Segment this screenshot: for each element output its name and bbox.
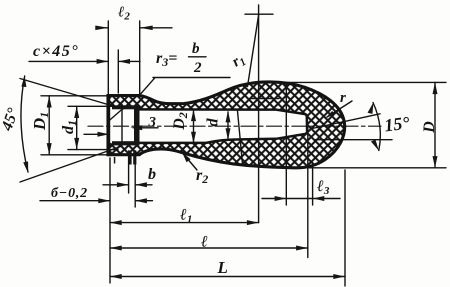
svg-text:c×45°: c×45°	[33, 43, 79, 60]
D1 dimension	[41, 95, 107, 97]
extension verticals	[109, 158, 111, 283]
chamfer top on bore	[108, 102, 132, 123]
thin vertical line crossing cavity at d-section	[238, 111, 243, 164]
svg-text:2: 2	[193, 60, 202, 76]
mystery short ext line near crown	[250, 98, 279, 100]
outer profile outline	[108, 82, 345, 168]
r2 leader	[183, 154, 197, 171]
metal insert (blackened thin section)	[112, 105, 140, 164]
svg-text:б−0,2: б−0,2	[51, 186, 88, 201]
handle body section (hatched)	[108, 82, 345, 168]
l3 dimension	[262, 198, 340, 200]
svg-text:15°: 15°	[383, 112, 411, 135]
small arrow at left face	[84, 133, 106, 135]
45 deg rays	[20, 146, 122, 182]
chamfer bottom on bore	[109, 143, 114, 147]
centerline	[88, 125, 381, 127]
svg-text:3: 3	[148, 115, 157, 131]
extra stub line	[114, 157, 116, 164]
r3 = b/2 fraction bar	[189, 56, 207, 58]
svg-text:ℓ: ℓ	[200, 234, 208, 251]
svg-text:r: r	[340, 90, 346, 106]
15 degree rays and arc	[312, 114, 380, 129]
boss left face	[107, 96, 110, 155]
svg-text:b: b	[192, 41, 200, 57]
svg-text:b: b	[148, 166, 156, 183]
d1 dimension	[68, 105, 112, 107]
L dimension	[110, 276, 345, 278]
b dimension	[103, 184, 152, 186]
svg-text:d: d	[205, 118, 222, 127]
bottom rib stubs	[129, 151, 132, 165]
d dimension	[227, 112, 229, 139]
insert closed end	[134, 105, 140, 145]
D2 dimension	[193, 111, 195, 142]
delta dimension	[40, 200, 153, 202]
45 arc	[21, 76, 28, 172]
r leader	[327, 101, 352, 117]
l2 dimension line	[96, 27, 172, 29]
r3 leader	[140, 78, 230, 95]
r1 center line and radius	[258, 5, 260, 223]
3 label underline and arrow	[137, 127, 159, 129]
inner cavity outline	[140, 109, 308, 142]
svg-text:L: L	[217, 258, 228, 277]
l1 dimension	[110, 222, 259, 224]
insert top wall	[112, 105, 140, 109]
l dimension	[110, 247, 308, 249]
svg-text:D: D	[421, 121, 438, 134]
extension lines	[107, 21, 109, 94]
insert bottom wall	[112, 141, 140, 145]
c dimension line	[29, 60, 140, 62]
